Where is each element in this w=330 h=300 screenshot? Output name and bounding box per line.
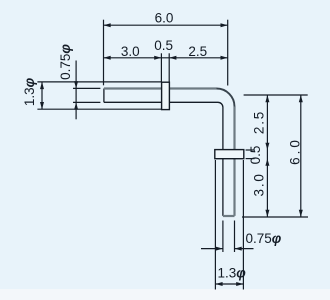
top extension line right (vertical leg centerline) bbox=[227, 20, 229, 86]
dimension 6.0 top bbox=[104, 24, 228, 26]
svg-text:0.75φ: 0.75φ bbox=[58, 44, 73, 80]
extension lines from collar 2 down (1.3 dia) bbox=[214, 160, 216, 290]
svg-text:1.3φ: 1.3φ bbox=[22, 77, 37, 106]
extension lines for 0.5 collar width bbox=[160, 53, 162, 82]
bottom page band bbox=[0, 289, 330, 300]
svg-text:2.5: 2.5 bbox=[188, 44, 207, 59]
collar 1 on horizontal leg bbox=[162, 82, 170, 109]
extension lines from pin tip down (0.75 dia) bbox=[222, 221, 224, 253]
dimension chain 2.5 / 0.5 / 3.0 right bbox=[266, 95, 268, 217]
dimension 0.75 dia left bbox=[75, 61, 77, 120]
svg-text:0.75φ: 0.75φ bbox=[246, 231, 282, 246]
dimension row 3.0 / 0.5 / 2.5 bbox=[104, 57, 228, 59]
right extension line top (horizontal leg centerline) bbox=[244, 94, 308, 96]
extension lines from collar 1 to left (1.3 dia) bbox=[37, 81, 161, 83]
svg-text:6.0: 6.0 bbox=[287, 137, 302, 165]
dimension 1.3 dia left bbox=[41, 82, 43, 109]
dimension 0.75 dia bottom bbox=[201, 248, 223, 250]
svg-text:2.5: 2.5 bbox=[252, 110, 267, 134]
svg-text:3.0: 3.0 bbox=[252, 172, 267, 196]
dimension 6.0 right bbox=[300, 95, 302, 217]
pin tube body (L-shape) bbox=[103, 89, 105, 103]
right extension line bottom (pin tip) bbox=[242, 216, 308, 218]
extension lines from tube left end (0.75 dia) bbox=[73, 87, 100, 89]
collar 2 on vertical leg bbox=[215, 150, 244, 159]
svg-text:0.5: 0.5 bbox=[154, 38, 173, 53]
svg-text:6.0: 6.0 bbox=[155, 10, 174, 25]
svg-text:1.3φ: 1.3φ bbox=[218, 266, 247, 281]
svg-text:3.0: 3.0 bbox=[121, 44, 140, 59]
top extension line left bbox=[103, 20, 105, 86]
collar 2 extension stubs right bbox=[246, 149, 255, 151]
dimension 1.3 dia bottom bbox=[215, 283, 243, 285]
svg-text:0.5: 0.5 bbox=[248, 146, 263, 165]
